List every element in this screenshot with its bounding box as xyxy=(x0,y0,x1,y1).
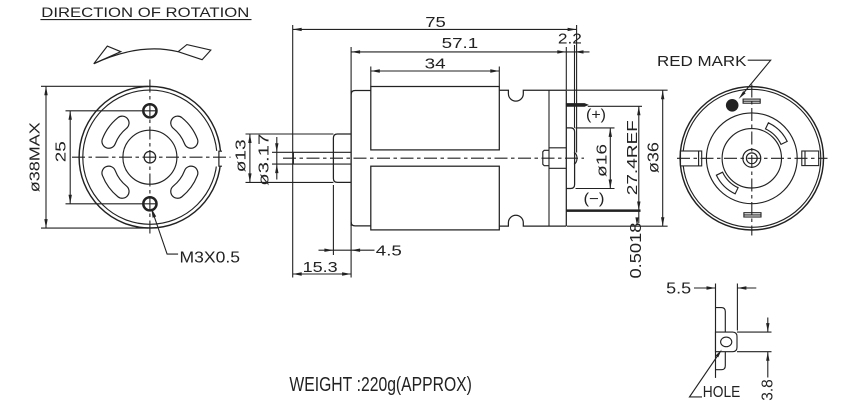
leader HOLE xyxy=(690,353,720,397)
side view axis centerline xyxy=(283,157,584,159)
rear bearing tab xyxy=(543,150,549,165)
title underline xyxy=(40,19,251,21)
svg-text:2.2: 2.2 xyxy=(558,30,582,47)
svg-text:4.5: 4.5 xyxy=(376,242,402,259)
dimension 25 line xyxy=(69,111,71,204)
dimension &#248;36 extension top xyxy=(567,89,668,91)
extension line 34 right xyxy=(498,67,500,87)
front view vent slot upper-left xyxy=(109,123,122,141)
front view vent slot upper-right xyxy=(178,123,191,141)
front view rim notch (3 o'clock) xyxy=(215,151,223,167)
dimension 5.5 line xyxy=(694,287,716,289)
motor can top rear line with crimp notch xyxy=(499,90,566,101)
dimension &#248;3.17 line xyxy=(276,137,278,180)
front view vent slot lower-left xyxy=(109,173,122,191)
rear view shaft end circle xyxy=(746,153,757,164)
rear view rim circle xyxy=(683,89,821,227)
svg-text:25: 25 xyxy=(54,141,70,162)
leader RED MARK xyxy=(742,60,771,95)
shaft outline xyxy=(293,152,351,164)
extension line terminal (+) xyxy=(588,105,642,107)
front view vertical centerline xyxy=(149,80,151,237)
dimension 5.5 extension right xyxy=(736,284,738,331)
rotation arrow head (left) xyxy=(94,46,121,64)
rear view brush slot lower-left xyxy=(716,172,738,194)
dimension 57.1 line xyxy=(351,51,566,53)
dimension &#248;3.17 extension bottom xyxy=(272,163,293,165)
front view shaft hole xyxy=(144,151,156,163)
leader M3X0.5 xyxy=(153,212,179,255)
dimension &#248;38MAX extension top xyxy=(41,85,148,87)
magnet housing rectangle top (&#248;38 section) xyxy=(371,87,500,150)
dimension &#248;36 extension bottom xyxy=(567,225,668,227)
endbell rear face xyxy=(565,90,567,226)
rear view right mounting tab xyxy=(802,151,819,166)
rear view brush plate circle xyxy=(722,129,781,188)
svg-text:5.5: 5.5 xyxy=(666,281,691,298)
rear view vent slot top xyxy=(743,99,760,103)
front view outer circle xyxy=(79,86,221,228)
dimension 75 line xyxy=(293,28,577,30)
rear view endbell circle xyxy=(706,113,797,204)
rear view vent slot bottom xyxy=(744,213,761,217)
rear view horizontal centerline xyxy=(677,157,828,159)
svg-text:ø38MAX: ø38MAX xyxy=(27,122,44,192)
dimension 25 extension line bottom xyxy=(66,203,158,205)
dimension 25 extension line top xyxy=(66,110,158,112)
svg-text:0.5018: 0.5018 xyxy=(628,223,645,279)
svg-text:(−): (−) xyxy=(584,192,605,208)
svg-text:27.4REF: 27.4REF xyxy=(624,120,641,195)
front view vent slot lower-right xyxy=(178,173,191,191)
dimension 3.8 extension top xyxy=(737,331,772,333)
rear boss center bump xyxy=(574,153,577,164)
dimension &#248;13 line xyxy=(249,134,251,182)
dimension &#248;13 extension bottom xyxy=(246,181,334,183)
front view screw hole bottom (M3) xyxy=(143,197,156,210)
detail terminal side profile xyxy=(716,308,726,370)
motor can top front section xyxy=(351,91,371,95)
dimension 3.8 line xyxy=(767,318,769,333)
svg-text:ø36: ø36 xyxy=(646,142,663,173)
front bearing bushing &#248;13 xyxy=(333,134,351,182)
dimension &#248;3.17 extension top xyxy=(272,151,293,153)
dimension 2.2 line xyxy=(566,51,589,53)
svg-text:3.8: 3.8 xyxy=(760,379,777,401)
front view horizontal centerline xyxy=(72,156,231,158)
svg-text:75: 75 xyxy=(425,14,446,31)
svg-text:34: 34 xyxy=(425,55,446,72)
detail terminal plate line xyxy=(715,284,717,378)
svg-text:ø13: ø13 xyxy=(232,139,249,172)
motor can bottom rear line with crimp notch xyxy=(499,215,566,226)
svg-text:HOLE: HOLE xyxy=(703,384,741,401)
motor can front face xyxy=(350,91,352,227)
red mark dot xyxy=(726,99,739,112)
dimension &#248;36 line xyxy=(662,90,664,226)
dimension &#248;13 extension top xyxy=(246,133,334,135)
svg-text:DIRECTION OF ROTATION: DIRECTION OF ROTATION xyxy=(41,5,249,20)
rear bearing step lines xyxy=(549,147,566,149)
dimension &#248;16 line xyxy=(609,128,611,189)
svg-text:ø3.17: ø3.17 xyxy=(255,134,272,186)
dimension 15.3 line xyxy=(293,273,351,275)
front view screw hole top (M3) xyxy=(143,104,156,117)
terminal (-) tab xyxy=(566,209,640,212)
rear view brush slot upper-right xyxy=(766,123,788,145)
rotation arrow arc xyxy=(94,49,178,64)
extension line 75 right xyxy=(576,25,578,153)
svg-text:ø16: ø16 xyxy=(593,144,610,177)
dimension 27.4REF line xyxy=(638,106,640,223)
dimension &#248;38MAX line xyxy=(45,86,47,228)
rear view bearing boss circle xyxy=(743,149,761,167)
extension line boss rear (2.2) xyxy=(574,45,576,128)
svg-text:15.3: 15.3 xyxy=(303,259,338,276)
extension line shaft tip (75/15.3) xyxy=(292,25,294,278)
extension line front face (57.1/15.3/4.5) xyxy=(350,47,352,278)
dimension &#248;16 extension bottom xyxy=(576,188,615,190)
terminal (+) tab xyxy=(566,104,588,107)
motor can bottom front section xyxy=(351,222,371,226)
rotation arrow tail flag (right) xyxy=(178,45,211,60)
rear view outer circle xyxy=(680,87,823,230)
dimension 0.5018 arrow xyxy=(635,217,638,226)
extension line bushing (4.5) xyxy=(332,185,334,255)
dimension 4.5 line xyxy=(319,249,334,251)
extension line rear face (57.1/2.2) xyxy=(565,47,567,90)
extension line 34 left xyxy=(370,67,372,87)
dimension 3.8 extension bottom xyxy=(737,351,772,353)
rear view left mounting tab xyxy=(681,151,702,166)
svg-text:M3X0.5: M3X0.5 xyxy=(180,250,241,267)
svg-text:57.1: 57.1 xyxy=(442,35,479,52)
svg-text:(+): (+) xyxy=(586,107,606,123)
dimension 34 line xyxy=(371,70,500,72)
front view inner rim circle xyxy=(83,90,217,224)
dimension &#248;16 extension top xyxy=(576,127,615,129)
svg-text:WEIGHT :220g(APPROX): WEIGHT :220g(APPROX) xyxy=(289,374,472,396)
magnet housing rectangle bottom (&#248;38 section) xyxy=(371,166,500,230)
svg-text:RED MARK: RED MARK xyxy=(657,53,747,70)
detail terminal hole xyxy=(721,337,732,347)
can-endbell junction line xyxy=(548,90,550,226)
rear boss &#248;16 xyxy=(566,128,574,189)
dimension &#248;38MAX extension bottom xyxy=(41,227,148,229)
rear view vertical centerline xyxy=(751,85,753,236)
front view hub circle xyxy=(123,130,177,184)
detail terminal lug xyxy=(716,332,738,352)
